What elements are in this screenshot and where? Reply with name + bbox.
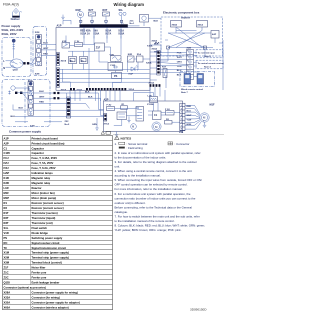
- terminal block X2M (control): [187, 47, 194, 79]
- svg-text:Capacitor: Capacitor: [32, 151, 44, 155]
- thermistor R1T: [162, 66, 167, 77]
- power module: [136, 107, 144, 122]
- svg-text:A3P: A3P: [212, 33, 217, 36]
- label power supply: [2, 24, 24, 36]
- svg-text:Resistor (current sensor): Resistor (current sensor): [32, 201, 64, 205]
- svg-text:C105: C105: [110, 65, 116, 67]
- svg-text:FBA-A(9): FBA-A(9): [3, 3, 20, 7]
- svg-text:Motor (drain pump): Motor (drain pump): [32, 196, 57, 200]
- power supply enclosure box A: [2, 38, 31, 77]
- svg-text:Indoor: Indoor: [181, 16, 191, 20]
- terminal circle (box A): [12, 39, 16, 51]
- remote controller unit 1: [184, 74, 191, 85]
- svg-text:Note 7: Note 7: [181, 91, 188, 94]
- svg-text:R1T: R1T: [4, 211, 9, 215]
- svg-text:Thermistor (liquid): Thermistor (liquid): [32, 216, 56, 220]
- svg-text:V1R: V1R: [110, 54, 115, 56]
- svg-text:Ferrite core: Ferrite core: [32, 276, 47, 280]
- wires X20A to X2M: [160, 53, 186, 88]
- svg-text:X3A: X3A: [179, 131, 184, 134]
- svg-text:Wiring diagram: Wiring diagram: [114, 2, 145, 7]
- pump circle: [131, 124, 137, 130]
- svg-text:X2M: X2M: [187, 47, 192, 49]
- svg-text:F2U: F2U: [4, 161, 9, 165]
- svg-text:X2M: X2M: [35, 32, 40, 34]
- svg-text:Q1DI: Q1DI: [13, 70, 18, 72]
- svg-text:Earth leakage breaker: Earth leakage breaker: [32, 281, 60, 285]
- svg-text:Wired remote control: Wired remote control: [181, 88, 203, 91]
- ribbon connector X73A: [149, 81, 161, 86]
- noise filter Z1F: [95, 43, 105, 51]
- svg-text:F2: F2: [187, 66, 189, 68]
- ferrite core Z2C stack: [65, 97, 71, 126]
- label wired remote control: [181, 88, 203, 94]
- svg-text:X33A: X33A: [152, 48, 158, 51]
- svg-text:unit.: unit.: [115, 165, 121, 169]
- svg-text:Connector (optional accessorie: Connector (optional accessories): [4, 286, 47, 290]
- connector X13A (A2P left edge): [104, 114, 107, 122]
- svg-text:R3T: R3T: [4, 221, 9, 225]
- svg-text:S1L: S1L: [4, 226, 9, 230]
- svg-text:7. For how to switch between t: 7. For how to switch between the main un…: [115, 214, 200, 218]
- svg-text:PS: PS: [114, 75, 118, 78]
- svg-text:according to the installation: according to the installation manual.: [115, 174, 161, 178]
- svg-text:RED: RED: [187, 106, 192, 108]
- svg-text:M: M: [132, 125, 134, 129]
- svg-text:C105: C105: [4, 151, 11, 155]
- resistor R1: [121, 104, 128, 109]
- wires top components to bar: [63, 15, 123, 24]
- svg-text:Thermistor (suction): Thermistor (suction): [32, 211, 58, 215]
- svg-text:outdoor unit) is different.: outdoor unit) is different.: [115, 201, 146, 205]
- svg-text:catalogue.: catalogue.: [115, 210, 129, 214]
- wire labels BLK BLK (to A2P): [85, 92, 93, 99]
- svg-text:R1T: R1T: [162, 66, 167, 68]
- svg-text:Terminal strip (power supply): Terminal strip (power supply): [32, 251, 70, 255]
- svg-text:Connector (for wiring): Connector (for wiring): [32, 296, 60, 300]
- ground at motor: [203, 122, 206, 127]
- resistor R2: [165, 119, 173, 124]
- svg-text:F1: F1: [187, 61, 189, 63]
- svg-text:X71A: X71A: [104, 122, 110, 125]
- A2P internal wires: [114, 93, 180, 126]
- motor connector strip X3A: [179, 103, 185, 134]
- wired remote control enclosure: [180, 72, 215, 87]
- note 1 field wiring: [119, 146, 143, 150]
- svg-text:8. Colours: BLK: black; RED: r: 8. Colours: BLK: black; RED: red; BLU: b…: [115, 224, 206, 228]
- connector X1A: [137, 53, 144, 62]
- fuse F2U (A2P): [107, 105, 115, 111]
- label X15A BLK: [147, 42, 160, 47]
- svg-text:M1P: M1P: [4, 196, 10, 200]
- svg-text:3D090150D: 3D090150D: [190, 308, 207, 312]
- svg-text:Z1F: Z1F: [96, 46, 101, 49]
- svg-text:Electronic component box: Electronic component box: [163, 11, 200, 15]
- svg-text:A1P: A1P: [4, 136, 9, 140]
- svg-text:PS: PS: [4, 236, 8, 240]
- connector X20A ribbon: [146, 51, 160, 76]
- svg-text:K1R: K1R: [4, 176, 9, 180]
- svg-text:connection ratio (number of in: connection ratio (number of indoor units…: [115, 196, 196, 200]
- svg-text:: Field wiring: : Field wiring: [127, 146, 144, 150]
- svg-text:Note 5: Note 5: [204, 55, 211, 58]
- svg-text:Noise filter: Noise filter: [32, 266, 46, 270]
- svg-text:Z1C: Z1C: [4, 271, 9, 275]
- svg-text:Outdoor: Outdoor: [11, 18, 20, 21]
- fuse labels under bar: [80, 30, 124, 36]
- svg-text:X60A: X60A: [4, 305, 11, 309]
- svg-text:X25A: X25A: [61, 88, 67, 91]
- svg-text:Connector (power supply for wi: Connector (power supply for wiring): [32, 291, 78, 295]
- svg-text:4. When using a central remote: 4. When using a central remote control, …: [115, 169, 192, 173]
- svg-text:X1A: X1A: [137, 53, 142, 56]
- svg-text:BLU: BLU: [177, 70, 182, 72]
- LED HAP: [129, 65, 139, 75]
- relay K2R: [128, 54, 135, 62]
- svg-text:X15A 1A: X15A 1A: [80, 32, 90, 35]
- remote controller unit 2: [197, 74, 204, 85]
- svg-text:R3T: R3T: [103, 9, 108, 12]
- svg-text:C1: C1: [4, 146, 8, 150]
- connector X27A (A1P left edge): [57, 53, 67, 66]
- svg-text:Printed circuit board (fan): Printed circuit board (fan): [32, 141, 65, 145]
- svg-text:Q1DI: Q1DI: [4, 281, 11, 285]
- svg-text:R2T: R2T: [89, 9, 94, 12]
- svg-text:X17A: X17A: [105, 32, 111, 35]
- svg-text:GRN: GRN: [92, 124, 97, 126]
- svg-text:Indication lamps: Indication lamps: [32, 171, 54, 175]
- svg-text:Reactor: Reactor: [32, 186, 42, 190]
- annotation to external input: [196, 50, 223, 58]
- svg-text:Z2C: Z2C: [65, 121, 70, 123]
- svg-text:R2: R2: [4, 206, 8, 210]
- parts legend table: [3, 136, 113, 310]
- svg-text:Magnetic relay: Magnetic relay: [32, 181, 51, 185]
- svg-text:X61A: X61A: [198, 23, 204, 26]
- capacitor C105: [108, 63, 123, 71]
- svg-text:TC: TC: [4, 246, 8, 250]
- reactor L1R: [148, 95, 158, 102]
- svg-text:K2R: K2R: [4, 181, 9, 185]
- svg-text:Connector (power supply for ad: Connector (power supply for adaptor): [32, 300, 80, 304]
- terminal strip X2M: [36, 35, 42, 66]
- svg-text:A2P: A2P: [4, 141, 9, 145]
- svg-text:Printed circuit board: Printed circuit board: [32, 136, 59, 140]
- wires box B: [13, 88, 86, 122]
- svg-text:Terminal strip (power supply): Terminal strip (power supply): [32, 256, 70, 260]
- PCB A1P: [56, 25, 150, 91]
- adaptor PCB A3P: [211, 31, 219, 39]
- svg-text:Ferrite core: Ferrite core: [32, 271, 47, 275]
- svg-text:BLK: BLK: [154, 20, 159, 22]
- signal transmission circuit TC: [80, 57, 88, 64]
- svg-text:BLK: BLK: [177, 75, 182, 77]
- fuse F3U (A2P): [165, 109, 174, 115]
- svg-text:Before connecting, refer to th: Before connecting, refer to the Technica…: [115, 205, 193, 209]
- svg-text:A1P: A1P: [57, 25, 62, 28]
- svg-text:BLK: BLK: [85, 92, 90, 94]
- svg-text:F1U: F1U: [4, 156, 9, 160]
- connector stubs bottom of component box: [167, 46, 207, 49]
- annotation to central remote control: [196, 60, 224, 69]
- wire junction squares (box A): [23, 62, 29, 64]
- crossing wires in component box: [165, 27, 215, 48]
- svg-text:X2M: X2M: [35, 73, 40, 75]
- motor M1F (indoor fan): [200, 103, 215, 122]
- warning marker: [101, 131, 111, 134]
- svg-text:WHT: WHT: [187, 115, 193, 117]
- svg-text:Float switch: Float switch: [32, 226, 48, 230]
- svg-text:HAP: HAP: [4, 171, 10, 175]
- svg-text:For more information, refer to: For more information, refer to the insta…: [115, 187, 183, 191]
- svg-text:Signal transmission circuit: Signal transmission circuit: [32, 246, 66, 250]
- svg-text:Z1C: Z1C: [130, 20, 135, 22]
- svg-text:X1M: X1M: [4, 251, 10, 255]
- svg-text:X18A: X18A: [118, 32, 124, 35]
- svg-text:Resistor (current sensor): Resistor (current sensor): [32, 206, 64, 210]
- wire colour labels PNK..BLK: [177, 53, 183, 77]
- connector plugs to bar: [80, 20, 123, 22]
- signal receiver circuit RC: [69, 57, 77, 64]
- svg-text:ORG: ORG: [177, 61, 182, 63]
- svg-text:To central remote control: To central remote control: [198, 62, 225, 65]
- svg-text:N: N: [3, 67, 5, 70]
- svg-text:: Screw terminal: : Screw terminal: [127, 142, 148, 146]
- svg-text:P2: P2: [187, 56, 189, 58]
- svg-text:X1M: X1M: [30, 126, 35, 128]
- notes header: [115, 136, 132, 141]
- wires box A: [14, 44, 56, 64]
- motor M1P circle (aux): [152, 122, 161, 131]
- motor wire colour labels: [187, 106, 193, 126]
- ferrite core Z1C label: [130, 20, 136, 25]
- svg-text:Common power supply: Common power supply: [9, 129, 41, 133]
- svg-text:No.2: No.2: [65, 124, 71, 126]
- connector X61A: [197, 21, 208, 28]
- svg-text:R2T: R2T: [4, 216, 9, 220]
- svg-text:to the installation manual of: to the installation manual of the remote…: [115, 219, 175, 223]
- wire labels BLK WHT RED (box B): [11, 91, 45, 118]
- svg-text:X73A: X73A: [149, 81, 155, 84]
- svg-text:Motor (indoor fan): Motor (indoor fan): [32, 191, 55, 195]
- motor M1P (drain pump): [76, 9, 84, 18]
- svg-text:BRN: BRN: [187, 124, 192, 126]
- svg-text:1.: 1.: [115, 142, 118, 146]
- svg-text:V1R: V1R: [4, 231, 9, 235]
- svg-text:BLU: BLU: [11, 116, 16, 118]
- transformer T1R: [128, 15, 161, 27]
- wires bar to A1P: [84, 28, 121, 39]
- wires A1P to A2P verticals: [70, 45, 165, 101]
- svg-text:Connector (wireless adaptor): Connector (wireless adaptor): [32, 305, 69, 309]
- svg-text:3. For details, refer to the w: 3. For details, refer to the wiring diag…: [115, 160, 197, 164]
- svg-text:NOTES: NOTES: [121, 137, 132, 141]
- breaker Q1DI: [6, 59, 24, 69]
- svg-text:P1: P1: [187, 51, 189, 53]
- svg-text:X3M: X3M: [4, 261, 10, 265]
- svg-text:M1F: M1F: [4, 191, 10, 195]
- wires to fan motor: [185, 105, 201, 129]
- terminal strip enclosure X2M: [33, 27, 47, 76]
- svg-text:X35A: X35A: [4, 300, 11, 304]
- svg-text:YLW: yellow; BRN: brown; ORG:: YLW: yellow; BRN: brown; ORG: orange; PN…: [115, 228, 182, 232]
- svg-text:6. For a multi-indoor-unit sys: 6. For a multi-indoor-unit system with p…: [115, 192, 191, 196]
- svg-text:HAP: HAP: [129, 73, 134, 76]
- svg-text:5. When connecting the input w: 5. When connecting the input wires from …: [115, 178, 202, 182]
- thermistor R2T: [89, 9, 96, 16]
- separator line: [113, 134, 224, 136]
- svg-text:Fuse, T, 5A, 250V: Fuse, T, 5A, 250V: [32, 161, 54, 165]
- svg-text:to the documentation of the in: to the documentation of the indoor units…: [115, 155, 167, 159]
- svg-text:OFF control operation can be s: OFF control operation can be selected by…: [115, 183, 188, 187]
- ground GRN (left of A2P): [92, 124, 99, 130]
- svg-text:Switching power supply: Switching power supply: [32, 236, 63, 240]
- connector X60A: [171, 21, 182, 28]
- inner divider dashes: [24, 82, 26, 123]
- svg-text:RC: RC: [4, 241, 8, 245]
- svg-text:: Connector: : Connector: [175, 142, 190, 146]
- outdoor unit symbol: [12, 8, 22, 17]
- svg-text:R1: R1: [4, 201, 8, 205]
- connector X25A stack (A1P left edge): [57, 68, 60, 88]
- svg-text:X70A: X70A: [77, 89, 83, 92]
- wires X2M to annotations: [194, 53, 200, 77]
- relay K1R: [62, 41, 70, 48]
- PCB A2P: [104, 98, 183, 131]
- svg-text:Fuse, T, 6.3A, 250V: Fuse, T, 6.3A, 250V: [32, 166, 56, 170]
- svg-text:BLK: BLK: [19, 108, 24, 110]
- labels X35A X33A below box: [152, 20, 160, 53]
- svg-text:Z2C: Z2C: [4, 276, 9, 280]
- svg-text:Capacitor: Capacitor: [32, 146, 44, 150]
- svg-text:F3U: F3U: [4, 166, 9, 170]
- svg-text:Magnetic relay: Magnetic relay: [32, 176, 51, 180]
- svg-text:Note 4: Note 4: [204, 65, 211, 68]
- svg-text:Terminal block (control): Terminal block (control): [32, 261, 63, 265]
- A1P internal wires: [62, 36, 150, 88]
- svg-text:Signal receiver circuit: Signal receiver circuit: [32, 241, 60, 245]
- svg-text:BLK: BLK: [155, 42, 160, 44]
- wire labels BLK WHT RED (box A): [43, 43, 49, 56]
- svg-text:X21A: X21A: [129, 88, 135, 91]
- field junction squares between boxes: [54, 92, 60, 99]
- svg-text:M1F: M1F: [210, 103, 215, 106]
- svg-text:X33A: X33A: [4, 296, 11, 300]
- notes text: [115, 151, 206, 232]
- switching power supply PS: [112, 73, 122, 79]
- svg-text:Z1F: Z1F: [4, 266, 9, 270]
- common power supply enclosure box B: [2, 80, 50, 127]
- svg-text:X2M: X2M: [4, 256, 10, 260]
- wire junction squares (box B): [15, 92, 22, 94]
- electronic component box enclosure: [161, 17, 223, 56]
- wires X1M to Z2C to A2P: [59, 93, 103, 126]
- thermistor R3T: [103, 9, 110, 16]
- fuse F1U: [75, 41, 83, 47]
- svg-text:To external input: To external input: [198, 51, 216, 54]
- svg-text:M: M: [79, 13, 82, 17]
- svg-text:Diode bridge: Diode bridge: [32, 231, 49, 235]
- svg-text:PNK: PNK: [177, 53, 182, 55]
- svg-text:60Hz, 220V: 60Hz, 220V: [2, 32, 17, 36]
- ground mid A2P: [127, 117, 130, 123]
- capacitor C1: [153, 111, 162, 120]
- svg-text:S1L: S1L: [119, 9, 124, 12]
- long signal wires across A1P: [59, 51, 149, 82]
- ground below A2P: [115, 132, 118, 137]
- wires component box down: [158, 40, 223, 90]
- float switch S1L: [119, 9, 127, 16]
- svg-text:X28A: X28A: [4, 291, 11, 295]
- svg-text:BLU: BLU: [187, 111, 192, 113]
- svg-text:X115A: X115A: [147, 103, 154, 106]
- svg-text:Fuse, T, 3.15A, 250V: Fuse, T, 3.15A, 250V: [32, 156, 58, 160]
- terminal circle (box B): [8, 86, 15, 95]
- svg-text:3~: 3~: [203, 120, 205, 122]
- svg-text:X27A: X27A: [61, 60, 67, 63]
- ferrite core Z1C (board): [117, 112, 127, 120]
- note 1 symbols: [115, 142, 190, 146]
- svg-text:Thermistor (coil): Thermistor (coil): [32, 221, 53, 225]
- ribbon connector X70A (A1P bottom): [70, 88, 126, 91]
- svg-text:2. In case of a multi-indoor-u: 2. In case of a multi-indoor-unit system…: [115, 151, 201, 155]
- diode bridge V1R: [110, 54, 122, 61]
- svg-text:No.1: No.1: [130, 23, 136, 25]
- svg-text:K2R: K2R: [128, 54, 133, 56]
- svg-text:WHT: WHT: [177, 57, 183, 59]
- extra verticals ribbon to A2P: [106, 91, 115, 101]
- terminal strip X1M: [28, 82, 33, 115]
- svg-text:L1R: L1R: [4, 186, 9, 190]
- ground (top left): [61, 15, 64, 20]
- connector bus bar X70A (A1P edge): [80, 24, 128, 27]
- svg-text:X60A: X60A: [172, 23, 178, 26]
